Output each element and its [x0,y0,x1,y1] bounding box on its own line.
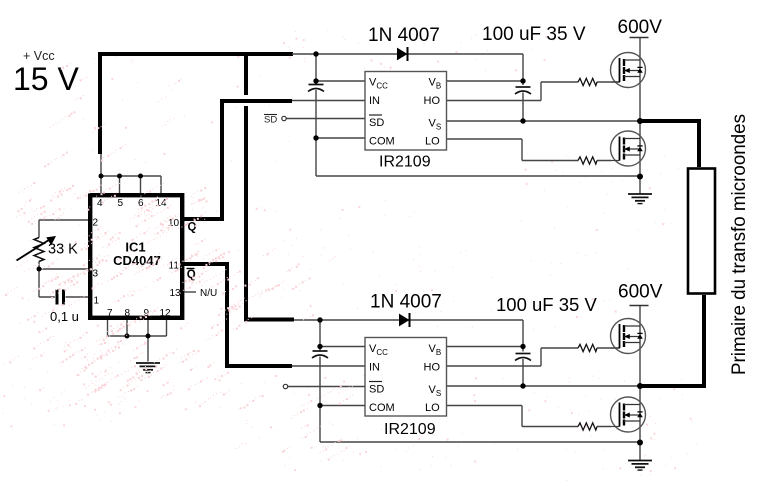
svg-text:15 V: 15 V [13,61,79,97]
svg-text:14: 14 [156,198,168,209]
svg-text:IN: IN [369,362,380,374]
svg-text:LO: LO [425,136,440,148]
svg-text:SD: SD [369,117,384,129]
svg-text:IR2109: IR2109 [384,421,436,438]
svg-text:COM: COM [369,402,395,414]
svg-text:3: 3 [93,269,99,280]
svg-text:Q: Q [188,222,197,234]
svg-text:1: 1 [94,296,100,307]
svg-text:Q: Q [187,269,196,281]
svg-text:13: 13 [170,288,182,299]
svg-text:N/U: N/U [200,288,217,299]
svg-text:12: 12 [160,308,172,319]
svg-text:1N 4007: 1N 4007 [370,292,442,313]
svg-text:Primaire du transfo microondes: Primaire du transfo microondes [729,114,750,375]
svg-text:8: 8 [125,308,131,319]
svg-text:33 K: 33 K [48,242,78,258]
svg-text:7: 7 [107,308,113,319]
svg-text:600V: 600V [618,282,663,303]
svg-text:600V: 600V [618,17,663,38]
svg-text:0,1 u: 0,1 u [50,309,79,324]
svg-text:HO: HO [424,362,441,374]
svg-text:LO: LO [425,402,440,414]
svg-text:100 uF 35 V: 100 uF 35 V [482,24,586,45]
svg-text:2: 2 [93,218,99,229]
svg-text:5: 5 [118,198,124,209]
svg-text:1N 4007: 1N 4007 [368,25,440,46]
svg-text:IN: IN [369,95,380,107]
svg-text:IR2109: IR2109 [379,154,431,171]
svg-text:SD: SD [369,384,384,396]
svg-text:SD: SD [264,115,277,126]
svg-text:COM: COM [369,136,395,148]
svg-text:100 uF 35 V: 100 uF 35 V [496,294,597,315]
svg-text:HO: HO [424,95,441,107]
